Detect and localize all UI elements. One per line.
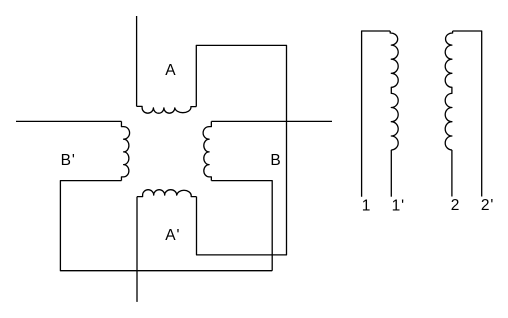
inductor coil B' xyxy=(121,121,129,180)
inductor coil B xyxy=(203,121,211,180)
svg-text:2': 2' xyxy=(481,197,494,214)
wire winding 2 right lead (terminal 2') xyxy=(453,31,482,197)
svg-text:B': B' xyxy=(61,152,76,169)
svg-text:A: A xyxy=(165,62,176,79)
wire coil B to right terminal xyxy=(211,120,332,122)
svg-text:2: 2 xyxy=(451,197,460,214)
wire left terminal to coil B' xyxy=(16,120,121,122)
wire winding 1 left lead (terminal 1) xyxy=(362,31,391,197)
wire lead A' bottom terminal xyxy=(136,197,138,302)
svg-text:1': 1' xyxy=(392,197,405,214)
wire winding 1 right lead (terminal 1') xyxy=(390,150,392,197)
wire from coil A right to outer loop (up, right, down) xyxy=(196,45,286,255)
wire lead A top terminal xyxy=(136,16,138,106)
svg-text:B: B xyxy=(270,152,280,169)
inductor winding 1 coil xyxy=(390,31,398,150)
wire winding 2 left lead (terminal 2) xyxy=(451,150,453,197)
wire from coil B' down and across bottom xyxy=(60,181,272,271)
wire from bottom loop up to coil B xyxy=(211,181,272,271)
svg-text:A': A' xyxy=(165,227,180,244)
inductor winding 2 coil xyxy=(445,31,452,150)
svg-text:1: 1 xyxy=(362,197,371,214)
inductor coil A' xyxy=(137,190,197,197)
inductor coil A xyxy=(137,106,197,113)
